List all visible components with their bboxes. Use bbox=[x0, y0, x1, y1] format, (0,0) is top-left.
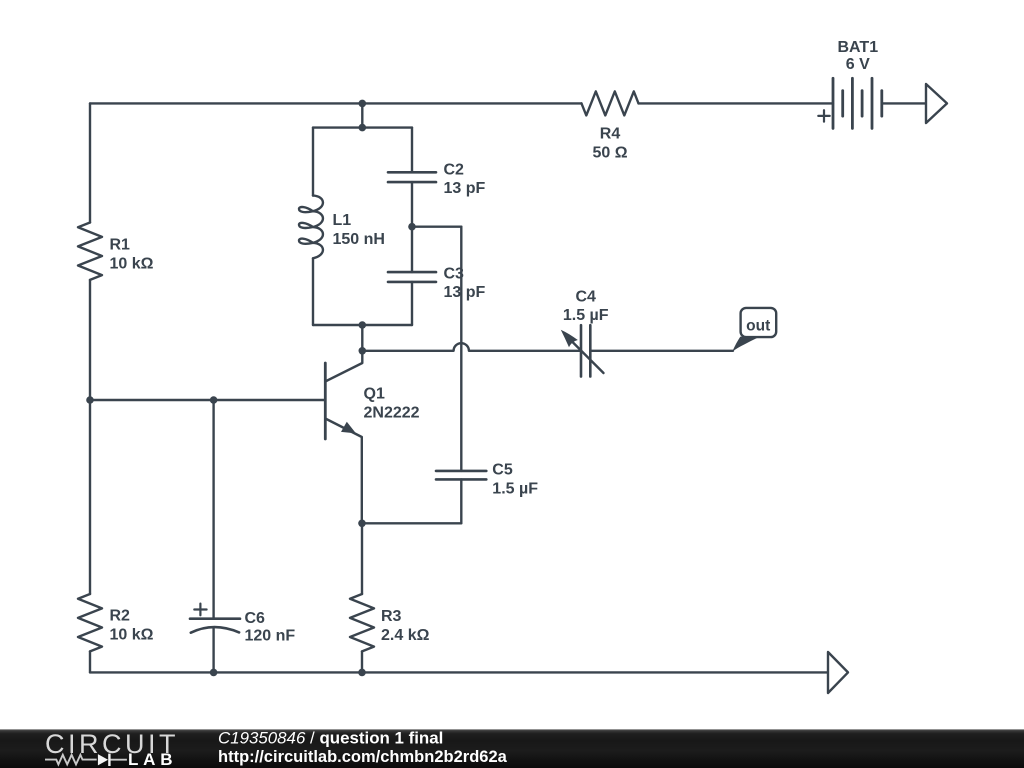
svg-text:out: out bbox=[746, 317, 770, 334]
wire left rail bbox=[89, 103, 91, 222]
port flag bottom right bbox=[828, 652, 848, 693]
svg-text:http://circuitlab.com/chmbn2b2: http://circuitlab.com/chmbn2b2rd62a bbox=[218, 748, 508, 766]
transistor Q1 collector lead bbox=[325, 351, 362, 382]
inductor L1 bbox=[299, 196, 323, 259]
wire C2 to C3 bbox=[411, 182, 413, 272]
wire C5 return to emitter bbox=[362, 522, 461, 524]
wire R4 to battery bbox=[639, 102, 834, 104]
resistor R2 bbox=[78, 594, 102, 651]
node emitter C5 bbox=[358, 520, 366, 528]
wire emitter to R3 bbox=[361, 523, 363, 594]
node top rail / tank bbox=[359, 100, 367, 108]
wire top rail left bbox=[90, 102, 582, 104]
wire C6 branch upper bbox=[212, 400, 214, 619]
capacitor C4 variable arrow bbox=[569, 339, 604, 374]
svg-text:LAB: LAB bbox=[128, 750, 177, 768]
svg-text:6 V: 6 V bbox=[846, 56, 870, 73]
wire tank left upper bbox=[312, 128, 314, 196]
svg-text:R1: R1 bbox=[110, 237, 131, 254]
logo diode bbox=[98, 754, 108, 765]
footer bar bbox=[0, 729, 1024, 768]
wire tank bottom stub bbox=[361, 325, 363, 351]
wire tank left lower bbox=[312, 258, 314, 325]
wire C4 to out bbox=[590, 350, 733, 352]
capacitor C5 bbox=[436, 471, 486, 480]
svg-text:C6: C6 bbox=[245, 610, 266, 627]
svg-text:R2: R2 bbox=[110, 608, 131, 625]
transistor Q1 base bar bbox=[324, 363, 327, 439]
node bottom rail C6 bbox=[210, 669, 218, 677]
logo zigzag resistor bbox=[45, 755, 97, 765]
capacitor C3 bbox=[388, 272, 436, 282]
svg-text:150 nH: 150 nH bbox=[333, 231, 385, 248]
wire bottom rail bbox=[90, 671, 828, 673]
wire base bbox=[90, 399, 324, 401]
wire C5 branch vertical lower bbox=[460, 479, 462, 523]
svg-text:Q1: Q1 bbox=[364, 385, 385, 402]
capacitor C6 plates bbox=[190, 619, 240, 633]
svg-text:R4: R4 bbox=[600, 126, 621, 143]
svg-text:R3: R3 bbox=[381, 608, 402, 625]
wire battery to port bbox=[882, 102, 925, 104]
battery BAT1 bbox=[833, 78, 882, 128]
wire C3 to box bottom bbox=[411, 282, 413, 325]
capacitor C4 arrowhead bbox=[561, 330, 578, 348]
svg-text:C5: C5 bbox=[492, 461, 513, 478]
svg-text:2N2222: 2N2222 bbox=[364, 404, 420, 421]
wire tank box bottom bbox=[313, 324, 412, 326]
node collector bbox=[359, 347, 367, 355]
svg-text:120 nF: 120 nF bbox=[245, 628, 296, 645]
wire C5 branch vertical upper bbox=[460, 227, 462, 471]
node dots bbox=[86, 100, 416, 677]
svg-text:13 pF: 13 pF bbox=[444, 180, 486, 197]
capacitor C4 plates bbox=[581, 325, 590, 376]
resistor R3 bbox=[350, 594, 374, 651]
svg-text:C19350846 / question 1 final: C19350846 / question 1 final bbox=[218, 728, 443, 747]
resistor R1 bbox=[78, 223, 102, 280]
battery plus sign bbox=[818, 110, 829, 121]
capacitor C6 plus sign bbox=[194, 604, 206, 616]
svg-text:13 pF: 13 pF bbox=[444, 284, 486, 301]
wire C6 branch lower bbox=[212, 628, 214, 673]
capacitor C2 bbox=[388, 172, 436, 182]
out flag box bbox=[741, 308, 777, 337]
wire tank box top bbox=[313, 126, 412, 128]
svg-text:BAT1: BAT1 bbox=[838, 39, 879, 56]
svg-text:50 Ω: 50 Ω bbox=[592, 145, 627, 162]
svg-text:10 kΩ: 10 kΩ bbox=[110, 627, 154, 644]
wire R3 to bottom rail bbox=[361, 651, 363, 672]
node bottom rail R3 bbox=[358, 669, 366, 677]
svg-text:C4: C4 bbox=[575, 289, 596, 306]
svg-text:C3: C3 bbox=[444, 266, 465, 283]
node base rail left bbox=[86, 396, 94, 404]
svg-text:C2: C2 bbox=[444, 162, 465, 179]
svg-text:2.4 kΩ: 2.4 kΩ bbox=[381, 627, 430, 644]
wire collector output with hop bbox=[362, 343, 581, 351]
wire left rail mid bbox=[89, 280, 91, 594]
transistor Q1 emitter arrowhead bbox=[341, 422, 356, 434]
wire top stub to tank bbox=[361, 103, 363, 127]
node tank top bbox=[359, 124, 367, 132]
resistor R4 bbox=[582, 91, 639, 115]
port flag top right bbox=[926, 84, 947, 123]
node C2-C3 junction bbox=[408, 223, 416, 231]
out flag pointer bbox=[732, 337, 757, 352]
node base rail C6 bbox=[210, 396, 218, 404]
svg-text:1.5 µF: 1.5 µF bbox=[563, 307, 609, 324]
transistor Q1 emitter lead bbox=[325, 419, 362, 524]
wire left rail bottom bbox=[89, 651, 91, 672]
svg-text:L1: L1 bbox=[333, 212, 352, 229]
svg-text:1.5 µF: 1.5 µF bbox=[492, 480, 538, 497]
wire mid junction to C5 branch bbox=[412, 225, 461, 227]
wire tank right upper bbox=[411, 128, 413, 173]
svg-text:10 kΩ: 10 kΩ bbox=[110, 256, 154, 273]
node tank bottom bbox=[359, 321, 367, 329]
